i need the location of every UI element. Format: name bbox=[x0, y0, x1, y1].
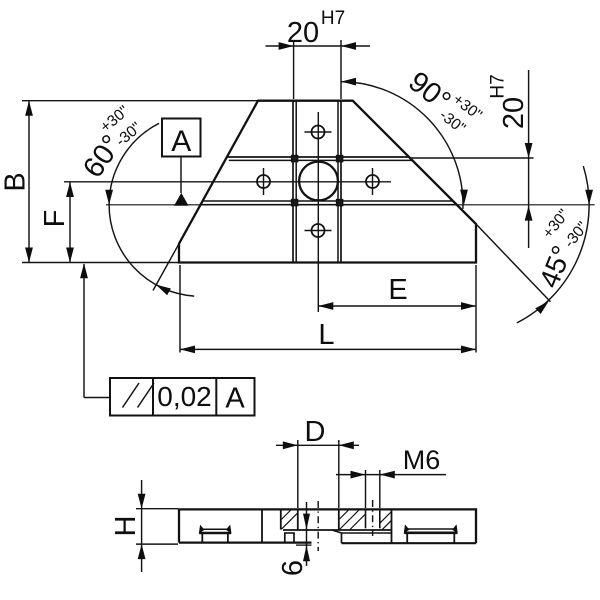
dim F arrow bottom bbox=[66, 248, 74, 263]
dim 20H7 top extension line right bbox=[340, 40, 342, 99]
side view right foot top line bbox=[342, 532, 392, 534]
dim 90 arc bbox=[341, 82, 463, 209]
dim E arrow right bbox=[461, 302, 476, 310]
side view groove bottom line bbox=[283, 529, 392, 531]
dim B dimension line bbox=[28, 101, 30, 263]
left T-slot top line bbox=[203, 528, 227, 530]
side view groove-to-foot step connector bbox=[332, 530, 342, 533]
dim B arrow bottom bbox=[25, 248, 33, 263]
dim 20H7 top arrow left bbox=[279, 42, 294, 50]
horizontal slot outer line top bbox=[227, 156, 409, 158]
corner mark top-left of slot crossing bbox=[292, 156, 298, 162]
hatch lines right block B bbox=[380, 512, 392, 524]
hole right crosshair bbox=[372, 168, 374, 195]
part outline (trapezoid body) bbox=[179, 101, 476, 263]
side view left foot right edge bbox=[293, 533, 295, 543]
fcf divider 1 bbox=[152, 378, 154, 416]
side view bottom relief short line bbox=[296, 544, 312, 546]
dim B arrow top bbox=[25, 101, 33, 116]
dim D extension line left bbox=[297, 440, 299, 508]
dim 45 arrow at horizontal face bbox=[585, 190, 593, 205]
dim E arrow left bbox=[318, 302, 333, 310]
side view bottom edge right segment bbox=[342, 542, 477, 544]
left T-slot vertical left bbox=[201, 534, 203, 544]
svg-text:E: E bbox=[388, 274, 407, 306]
dim M6 arrow right bbox=[380, 471, 395, 479]
datum A filled triangle bbox=[174, 193, 189, 206]
vertical slot outer line right bbox=[340, 101, 342, 263]
left T-slot horn right bbox=[226, 525, 232, 534]
dim 20H7 right arrow upper bbox=[525, 143, 533, 158]
side view M6 dashed centerline bbox=[372, 500, 374, 536]
datum A box bbox=[162, 119, 201, 157]
dim 6 line bbox=[306, 502, 308, 566]
fcf leader horizontal bbox=[84, 397, 110, 399]
dim 20H7 top extension line left bbox=[293, 40, 295, 99]
right T-slot cap bar bbox=[404, 531, 457, 534]
fcf leader arrow bbox=[80, 263, 88, 278]
dim D extension line right bbox=[338, 440, 340, 508]
horizontal slot inner line top bbox=[229, 159, 413, 161]
corner mark bottom-right of slot crossing bbox=[337, 200, 343, 206]
datum A leader line bbox=[180, 157, 182, 194]
dim M6 arrow left bbox=[351, 471, 366, 479]
horizontal centerline (also F top extension) bbox=[64, 181, 391, 183]
left T-slot vertical right bbox=[227, 534, 229, 544]
dim B bottom extension line bbox=[22, 262, 179, 264]
hole top bbox=[312, 126, 325, 139]
svg-text:D: D bbox=[305, 416, 326, 448]
dim M6 extension line left bbox=[365, 470, 367, 508]
svg-text:20: 20 bbox=[498, 97, 530, 129]
dim 90 arrow right bbox=[460, 190, 468, 205]
svg-text:L: L bbox=[318, 319, 334, 351]
hole left bbox=[257, 175, 270, 188]
right T-slot horn right bbox=[452, 524, 458, 533]
side view bottom edge left segment bbox=[179, 541, 312, 543]
side view M6 hole right wall bbox=[379, 509, 381, 528]
right T-slot top line bbox=[408, 528, 454, 530]
svg-text:H7: H7 bbox=[488, 74, 509, 98]
svg-text:H7: H7 bbox=[321, 8, 345, 29]
dim 20H7 right extension line top bbox=[409, 157, 533, 159]
hole bottom bbox=[312, 224, 325, 237]
right T-slot vertical left bbox=[406, 534, 408, 544]
dim 45 arrow at sloped face bbox=[535, 301, 549, 314]
svg-text:B: B bbox=[0, 172, 32, 191]
hole left crosshair bbox=[263, 168, 265, 195]
corner mark bottom-left of slot crossing bbox=[292, 200, 298, 206]
horizontal slot outer line bottom thick part segment bbox=[201, 204, 457, 206]
dim 6 upper arrow bbox=[303, 514, 310, 530]
vertical slot inner line right bbox=[337, 101, 339, 263]
right T-slot vertical right bbox=[453, 534, 455, 544]
dim 60 arc bbox=[109, 123, 194, 296]
svg-text:0,02: 0,02 bbox=[157, 381, 212, 412]
fcf divider 2 bbox=[215, 378, 217, 416]
dim D dimension line bbox=[276, 444, 359, 446]
horizontal slot outer line bottom (extended both sides as reference line) bbox=[106, 204, 595, 206]
hole right bbox=[366, 175, 379, 188]
dim 20H7 top dimension line bbox=[266, 45, 371, 47]
side view groove right wall bbox=[338, 509, 340, 529]
dim H extension line bottom bbox=[136, 543, 178, 545]
dim M6 extension line right bbox=[379, 470, 381, 508]
dim M6 dimension line bbox=[336, 474, 446, 476]
side view M6 hole left wall bbox=[365, 509, 367, 528]
vertical slot outer line left bbox=[292, 101, 294, 263]
dim 45 arc bbox=[517, 166, 589, 323]
dim L arrow right bbox=[461, 346, 476, 354]
hole bottom crosshair bbox=[305, 230, 332, 232]
fcf leader vertical bbox=[83, 264, 85, 398]
vertical slot inner line left bbox=[295, 101, 297, 263]
fcf box bbox=[110, 378, 255, 416]
hatch lines right block A bbox=[340, 510, 350, 520]
dim 60 arrow at horizontal face bbox=[105, 190, 113, 205]
hatch lines left block bbox=[281, 513, 297, 529]
left T-slot horn left bbox=[199, 525, 205, 534]
dim H arrow top bbox=[138, 494, 146, 509]
dim H dimension line bbox=[141, 480, 143, 572]
side view left hatch wall bbox=[280, 509, 282, 529]
dim F dimension line bbox=[69, 182, 71, 263]
dim 20H7 top arrow right bbox=[341, 42, 356, 50]
dim 60 sloped face extension line bbox=[153, 244, 179, 291]
dim 90 arrow top bbox=[341, 78, 356, 86]
dim B top extension line bbox=[22, 100, 258, 102]
side view outline top and sides bbox=[179, 509, 476, 543]
vertical centerline bbox=[317, 112, 319, 312]
svg-text:A: A bbox=[171, 125, 191, 158]
side view left foot top line bbox=[284, 532, 295, 534]
svg-text:H: H bbox=[110, 516, 142, 537]
side view left foot left edge bbox=[284, 533, 286, 543]
dim L right extension line bbox=[475, 265, 477, 353]
dim E dimension line bbox=[318, 305, 476, 307]
side view groove left wall bbox=[297, 509, 299, 529]
dim D arrow right bbox=[339, 441, 354, 449]
horizontal slot inner line bottom bbox=[203, 200, 453, 202]
dim L left extension line bbox=[179, 265, 181, 353]
svg-text:F: F bbox=[39, 210, 71, 228]
side view internal vertical line left segment bbox=[261, 509, 263, 543]
dim 6 lower arrow bbox=[303, 545, 310, 561]
dim L dimension line bbox=[180, 348, 476, 350]
svg-text:M6: M6 bbox=[403, 445, 441, 475]
dim 60 arrow at sloped face bbox=[156, 285, 171, 296]
dim D arrow left bbox=[283, 441, 298, 449]
dim L arrow left bbox=[180, 346, 195, 354]
svg-text:6: 6 bbox=[277, 560, 309, 576]
side view internal vertical line right block edge bbox=[391, 509, 393, 543]
svg-text:20: 20 bbox=[287, 17, 319, 49]
dim 20H7 right arrow lower bbox=[525, 206, 533, 221]
dim F arrow top bbox=[66, 182, 74, 197]
hole top crosshair bbox=[305, 131, 332, 133]
left T-slot cap bar bbox=[199, 532, 231, 535]
central bore circle bbox=[299, 162, 338, 201]
side view right foot left edge bbox=[341, 533, 343, 543]
side view center dashed centerline bbox=[317, 501, 319, 551]
dim H arrow bottom bbox=[138, 544, 146, 559]
svg-text:A: A bbox=[225, 383, 245, 415]
fcf parallelism symbol bbox=[123, 383, 140, 408]
dim 20H7 right dimension line bbox=[528, 70, 530, 248]
dim 45 sloped face extension line bbox=[476, 224, 551, 302]
right T-slot horn left bbox=[404, 524, 410, 533]
dim H extension line top bbox=[136, 508, 178, 510]
corner mark top-right of slot crossing bbox=[337, 156, 343, 162]
